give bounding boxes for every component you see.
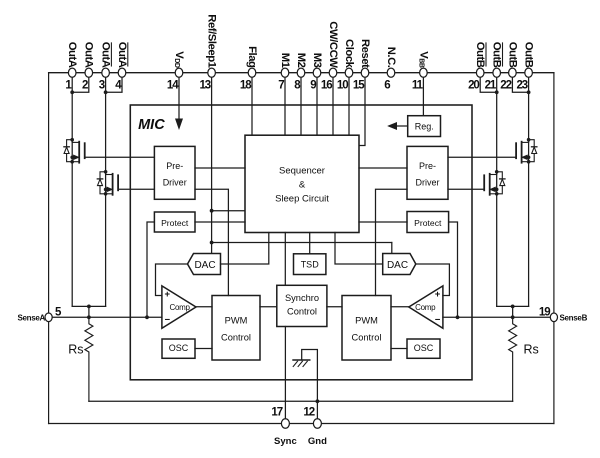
svg-text:15: 15 [353,79,365,91]
svg-text:PWM: PWM [355,316,378,326]
svg-text:VBB: VBB [417,51,429,68]
svg-text:4: 4 [115,79,122,91]
svg-text:Flag: Flag [246,46,258,68]
svg-text:VDD: VDD [173,51,185,68]
svg-text:Protect: Protect [161,218,189,228]
svg-text:M3: M3 [311,53,323,68]
svg-text:Pre-: Pre- [419,161,436,171]
svg-text:Ref/Sleep1: Ref/Sleep1 [206,14,218,67]
svg-text:OSC: OSC [169,343,189,353]
svg-text:Gnd: Gnd [308,436,327,447]
svg-text:19: 19 [539,307,550,319]
svg-text:OutB: OutB [523,42,535,68]
svg-text:20: 20 [468,79,479,91]
svg-text:3: 3 [99,79,105,91]
svg-text:11: 11 [412,79,424,91]
svg-text:+: + [165,289,171,300]
svg-text:Control: Control [352,333,382,343]
svg-text:DAC: DAC [194,260,215,271]
svg-text:OSC: OSC [414,343,434,353]
svg-text:14: 14 [167,79,179,91]
svg-text:MIC: MIC [138,117,165,133]
svg-text:22: 22 [500,79,511,91]
svg-text:Sleep Circuit: Sleep Circuit [275,194,329,205]
svg-text:13: 13 [200,79,211,91]
svg-text:OutA: OutA [116,42,128,68]
svg-text:Driver: Driver [416,178,440,188]
svg-text:17: 17 [271,407,282,419]
svg-text:PWM: PWM [225,316,248,326]
svg-text:M2: M2 [295,53,307,68]
svg-text:Driver: Driver [163,178,187,188]
svg-text:Clock: Clock [343,39,355,69]
svg-text:2: 2 [82,79,88,91]
svg-text:OutA: OutA [100,42,112,68]
svg-text:Synchro: Synchro [285,293,319,303]
svg-text:Rs: Rs [68,342,83,356]
svg-text:21: 21 [485,79,497,91]
svg-text:TSD: TSD [301,259,320,269]
svg-text:5: 5 [55,307,62,319]
svg-text:Comp: Comp [415,303,436,312]
svg-text:12: 12 [303,407,314,419]
svg-text:Sync: Sync [274,436,297,447]
svg-text:OutB: OutB [474,42,486,68]
svg-text:7: 7 [278,79,284,91]
svg-text:CW/CCW: CW/CCW [327,21,339,68]
svg-text:&: & [299,180,306,191]
svg-text:SenseA: SenseA [17,314,45,323]
svg-text:Rs: Rs [524,342,539,356]
svg-text:Protect: Protect [414,218,442,228]
svg-text:Reset: Reset [359,39,371,68]
svg-text:Pre-: Pre- [166,161,183,171]
svg-text:M1: M1 [279,53,291,68]
svg-text:SenseB: SenseB [560,314,588,323]
svg-text:1: 1 [65,79,72,91]
svg-text:10: 10 [337,79,348,91]
svg-text:OutB: OutB [491,42,503,68]
svg-text:Control: Control [221,333,251,343]
svg-text:18: 18 [240,79,252,91]
svg-text:OutA: OutA [66,42,78,68]
svg-text:DAC: DAC [387,260,408,271]
svg-text:OutA: OutA [83,42,95,68]
svg-text:OutB: OutB [506,42,518,68]
svg-text:Control: Control [287,306,317,316]
svg-text:23: 23 [517,79,528,91]
svg-text:16: 16 [321,79,332,91]
svg-text:9: 9 [310,79,316,91]
svg-text:8: 8 [294,79,301,91]
svg-text:N.C.: N.C. [385,47,397,68]
svg-text:+: + [435,289,441,300]
svg-text:Comp: Comp [170,303,191,312]
svg-text:6: 6 [384,79,390,91]
svg-text:Reg.: Reg. [415,121,434,131]
svg-text:−: − [165,314,171,325]
svg-text:−: − [435,314,441,325]
svg-text:Sequencer: Sequencer [279,166,325,177]
